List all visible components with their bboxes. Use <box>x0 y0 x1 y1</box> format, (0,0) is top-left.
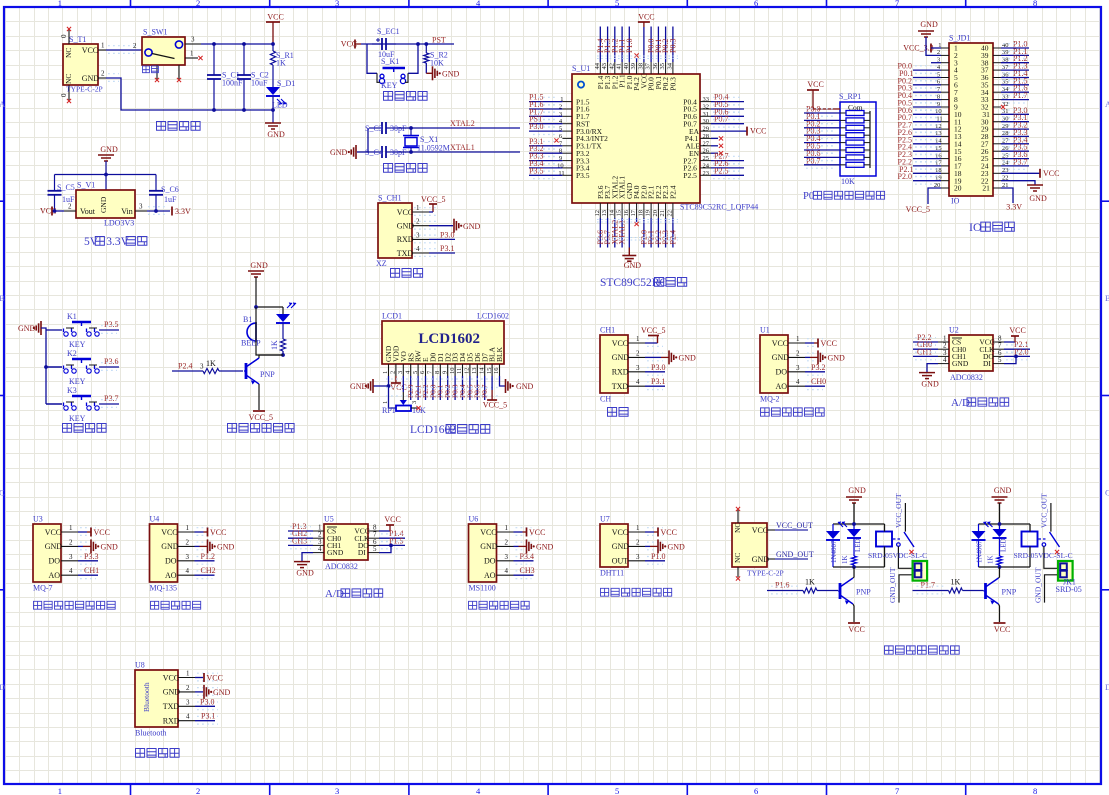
svg-text:IO: IO <box>969 220 982 234</box>
svg-text:P0: P0 <box>803 191 814 202</box>
svg-text:3: 3 <box>411 401 418 404</box>
svg-text:DO: DO <box>165 557 177 566</box>
svg-text:4: 4 <box>796 378 800 386</box>
svg-text:3: 3 <box>505 553 509 561</box>
svg-text:S_T1: S_T1 <box>69 35 86 44</box>
svg-text:3: 3 <box>397 371 404 374</box>
svg-text:U6: U6 <box>469 515 479 524</box>
svg-text:3: 3 <box>191 36 195 44</box>
svg-text:15: 15 <box>486 368 493 375</box>
svg-text:4: 4 <box>318 545 322 553</box>
svg-text:GND: GND <box>99 196 108 213</box>
svg-text:GND: GND <box>463 222 481 231</box>
svg-text:4: 4 <box>186 567 190 575</box>
svg-text:16: 16 <box>493 367 500 374</box>
svg-text:2: 2 <box>133 42 137 50</box>
svg-text:P1.0: P1.0 <box>651 552 665 561</box>
svg-text:10K: 10K <box>430 59 444 68</box>
svg-text:XTAL1: XTAL1 <box>618 220 627 245</box>
svg-text:3: 3 <box>139 203 143 211</box>
svg-text:S_C5: S_C5 <box>57 183 75 192</box>
svg-text:VCC_OUT: VCC_OUT <box>776 521 813 530</box>
svg-text:U7: U7 <box>600 515 610 524</box>
svg-text:P1.7: P1.7 <box>921 581 935 590</box>
svg-text:VCC: VCC <box>752 526 768 535</box>
svg-text:GND: GND <box>267 130 285 139</box>
svg-text:GND_OUT: GND_OUT <box>1034 567 1043 603</box>
svg-text:1: 1 <box>382 371 389 374</box>
svg-text:VCC_5: VCC_5 <box>421 195 445 204</box>
svg-text:GND: GND <box>516 382 534 391</box>
svg-text:CH1: CH1 <box>600 326 615 335</box>
svg-text:U3: U3 <box>33 515 43 524</box>
svg-text:SRD-05: SRD-05 <box>1056 585 1082 594</box>
svg-text:1: 1 <box>190 50 194 58</box>
svg-text:DHT11: DHT11 <box>600 569 624 578</box>
svg-text:VCC: VCC <box>807 80 823 89</box>
svg-text:SRD-05VDC-SL-C: SRD-05VDC-SL-C <box>868 551 927 560</box>
svg-text:2: 2 <box>69 538 73 546</box>
svg-text:S_JD1: S_JD1 <box>949 34 970 43</box>
svg-text:P3.1: P3.1 <box>201 712 215 721</box>
svg-text:3: 3 <box>796 364 800 372</box>
svg-text:12: 12 <box>464 368 471 375</box>
svg-text:VCC: VCC <box>848 625 864 634</box>
svg-text:5: 5 <box>412 371 419 374</box>
svg-text:STC89C52RC: STC89C52RC <box>600 277 667 289</box>
svg-text:3: 3 <box>636 364 640 372</box>
svg-text:16: 16 <box>623 209 630 216</box>
svg-text:15: 15 <box>616 210 623 217</box>
svg-text:1K: 1K <box>951 578 961 587</box>
svg-text:P1.6: P1.6 <box>775 581 789 590</box>
svg-text:KEY: KEY <box>69 414 86 423</box>
svg-text:VCC: VCC <box>994 625 1010 634</box>
svg-text:VCC: VCC <box>1009 326 1025 335</box>
svg-text:2: 2 <box>796 349 800 357</box>
svg-text:P3.4: P3.4 <box>520 552 534 561</box>
svg-text:P3.7: P3.7 <box>104 394 118 403</box>
svg-text:14: 14 <box>608 209 615 216</box>
svg-text:1K: 1K <box>841 555 849 564</box>
svg-text:AO: AO <box>776 382 788 391</box>
svg-text:3.3V: 3.3V <box>1006 203 1022 212</box>
svg-text:1: 1 <box>69 524 73 532</box>
svg-text:GND: GND <box>397 222 415 231</box>
svg-text:1: 1 <box>796 335 800 343</box>
svg-text:37: 37 <box>645 62 652 69</box>
svg-text:GND: GND <box>330 148 348 157</box>
svg-text:P0.7: P0.7 <box>714 115 728 124</box>
svg-text:12: 12 <box>594 210 601 217</box>
svg-text:38: 38 <box>637 63 644 70</box>
svg-text:PNP: PNP <box>1002 588 1017 597</box>
svg-text:IO: IO <box>951 197 960 206</box>
svg-text:S_RP1: S_RP1 <box>839 92 861 101</box>
svg-text:K2: K2 <box>67 349 77 358</box>
svg-text:18: 18 <box>637 210 644 217</box>
svg-text:10: 10 <box>449 368 456 375</box>
svg-text:A: A <box>0 99 6 109</box>
svg-text:VCC_5: VCC_5 <box>483 401 507 410</box>
svg-text:42: 42 <box>608 63 615 70</box>
svg-text:1: 1 <box>186 670 190 678</box>
svg-text:NC: NC <box>64 74 73 84</box>
svg-text:44: 44 <box>594 62 601 69</box>
svg-text:4: 4 <box>505 567 509 575</box>
svg-text:35: 35 <box>659 63 666 70</box>
svg-text:3: 3 <box>335 786 339 795</box>
svg-text:GND: GND <box>101 542 119 551</box>
svg-text:S_CH1: S_CH1 <box>378 194 402 203</box>
svg-text:VCC_OUT: VCC_OUT <box>1040 493 1049 528</box>
svg-text:NC: NC <box>733 523 742 533</box>
svg-text:P0.3: P0.3 <box>669 77 678 91</box>
svg-text:NC: NC <box>733 553 742 563</box>
svg-text:VCC: VCC <box>210 528 226 537</box>
svg-text:GND: GND <box>442 70 460 79</box>
svg-text:P3.2: P3.2 <box>811 363 825 372</box>
svg-text:KEY: KEY <box>69 377 86 386</box>
svg-text:20: 20 <box>652 210 659 217</box>
svg-text:NC: NC <box>64 48 73 58</box>
svg-text:CH1: CH1 <box>917 347 932 356</box>
svg-text:VCC: VCC <box>772 339 788 348</box>
svg-text:D: D <box>1105 682 1109 692</box>
svg-text:1: 1 <box>186 524 190 532</box>
svg-text:2: 2 <box>101 70 105 78</box>
svg-text:VCC: VCC <box>397 208 413 217</box>
svg-text:S_C6: S_C6 <box>161 185 179 194</box>
svg-text:40: 40 <box>623 63 630 70</box>
svg-text:9: 9 <box>441 371 448 374</box>
svg-text:GND: GND <box>217 542 235 551</box>
svg-text:S_EC1: S_EC1 <box>377 27 400 36</box>
svg-text:GND: GND <box>994 486 1012 495</box>
svg-text:4: 4 <box>69 567 73 575</box>
svg-text:CH0: CH0 <box>811 377 826 386</box>
svg-text:VCC: VCC <box>661 528 677 537</box>
svg-text:SRD-05VDC-SL-C: SRD-05VDC-SL-C <box>1014 551 1073 560</box>
svg-text:Vout: Vout <box>80 207 96 216</box>
svg-text:8: 8 <box>1033 0 1037 8</box>
svg-text:U5: U5 <box>324 515 334 524</box>
svg-text:3: 3 <box>186 553 190 561</box>
svg-text:21: 21 <box>659 210 666 217</box>
svg-text:GND: GND <box>480 542 498 551</box>
svg-text:2: 2 <box>505 538 509 546</box>
svg-text:U8: U8 <box>135 661 145 670</box>
svg-text:LED: LED <box>1000 538 1008 552</box>
svg-text:3: 3 <box>335 0 339 8</box>
svg-text:LED: LED <box>854 538 862 552</box>
svg-text:VCC: VCC <box>529 528 545 537</box>
svg-text:3: 3 <box>200 363 204 371</box>
svg-text:VCC_5: VCC_5 <box>641 326 665 335</box>
svg-text:2: 2 <box>196 786 200 795</box>
svg-text:1K: 1K <box>805 578 815 587</box>
svg-text:VCC_3.3: VCC_3.3 <box>903 44 933 53</box>
svg-text:GND: GND <box>327 548 344 557</box>
svg-text:PNP: PNP <box>856 588 871 597</box>
svg-text:41: 41 <box>616 63 623 70</box>
svg-text:B: B <box>1105 293 1109 303</box>
svg-text:VCC: VCC <box>612 528 628 537</box>
svg-text:CH3: CH3 <box>292 536 307 545</box>
svg-text:1: 1 <box>636 335 640 343</box>
svg-text:PNP: PNP <box>260 370 275 379</box>
svg-text:VCC_5: VCC_5 <box>249 413 273 422</box>
svg-text:RP1: RP1 <box>382 406 396 415</box>
svg-text:TXD: TXD <box>163 702 180 711</box>
svg-text:GND: GND <box>828 353 846 362</box>
svg-text:MQ-2: MQ-2 <box>760 395 780 404</box>
svg-text:DI: DI <box>358 548 366 557</box>
svg-text:4: 4 <box>186 713 190 721</box>
svg-text:20: 20 <box>954 184 962 193</box>
svg-text:8: 8 <box>434 371 441 374</box>
svg-text:34: 34 <box>666 62 673 69</box>
svg-text:GND: GND <box>920 20 938 29</box>
svg-text:GND: GND <box>350 382 368 391</box>
svg-text:KEY: KEY <box>381 81 398 90</box>
svg-text:VCC_5: VCC_5 <box>906 205 930 214</box>
svg-text:1N4007: 1N4007 <box>976 540 984 563</box>
svg-text:DI: DI <box>983 359 991 368</box>
svg-text:CH3: CH3 <box>520 566 535 575</box>
svg-text:P2.5: P2.5 <box>683 171 697 180</box>
svg-text:VCC: VCC <box>207 673 223 682</box>
svg-text:CH2: CH2 <box>201 566 216 575</box>
svg-text:2: 2 <box>390 371 397 374</box>
svg-text:AO: AO <box>49 571 61 580</box>
svg-text:RXD: RXD <box>397 235 414 244</box>
svg-text:GND: GND <box>250 261 268 270</box>
svg-text:GND: GND <box>612 542 630 551</box>
svg-text:DO: DO <box>484 557 496 566</box>
svg-text:2: 2 <box>68 203 72 211</box>
svg-text:GND_OUT: GND_OUT <box>776 550 814 559</box>
svg-text:VCC: VCC <box>480 528 496 537</box>
svg-text:1uF: 1uF <box>164 195 177 204</box>
svg-text:11: 11 <box>456 368 463 374</box>
svg-text:S_V1: S_V1 <box>77 181 95 190</box>
svg-text:GND: GND <box>163 688 181 697</box>
svg-text:1K: 1K <box>987 555 995 564</box>
svg-text:Bluetooth: Bluetooth <box>135 729 167 738</box>
svg-text:TYPE-C-2P: TYPE-C-2P <box>66 85 103 94</box>
svg-text:ADC0832: ADC0832 <box>950 373 983 382</box>
svg-text:S_U1: S_U1 <box>572 64 590 73</box>
svg-text:3: 3 <box>69 553 73 561</box>
svg-text:D: D <box>0 682 5 692</box>
svg-text:10K: 10K <box>841 177 855 186</box>
svg-text:VCC: VCC <box>45 528 61 537</box>
svg-text:PST: PST <box>432 36 446 45</box>
svg-text:A: A <box>1105 99 1109 109</box>
svg-text:13: 13 <box>471 368 478 375</box>
svg-text:P2.0: P2.0 <box>898 172 912 181</box>
svg-text:VCC: VCC <box>82 46 98 55</box>
svg-text:P3.0: P3.0 <box>529 122 543 131</box>
svg-text:1: 1 <box>505 524 509 532</box>
svg-text:1K: 1K <box>270 340 279 350</box>
svg-text:LCD1: LCD1 <box>382 312 402 321</box>
svg-text:8: 8 <box>1033 786 1037 795</box>
svg-text:GND: GND <box>752 555 770 564</box>
svg-text:4: 4 <box>943 356 947 364</box>
svg-text:P3.1: P3.1 <box>440 244 454 253</box>
svg-text:1K: 1K <box>276 59 286 68</box>
svg-text:VCC: VCC <box>384 515 400 524</box>
svg-text:DO: DO <box>776 368 788 377</box>
svg-text:3.3V: 3.3V <box>175 207 191 216</box>
svg-text:GND: GND <box>952 359 969 368</box>
svg-text:5V: 5V <box>84 236 99 248</box>
svg-text:5: 5 <box>373 545 377 553</box>
svg-text:B1: B1 <box>243 315 252 324</box>
svg-text:GND: GND <box>668 542 686 551</box>
svg-text:VCC: VCC <box>163 673 179 682</box>
svg-text:P2.4: P2.4 <box>669 185 678 199</box>
svg-text:C: C <box>0 488 5 498</box>
svg-text:P3.5: P3.5 <box>576 171 590 180</box>
svg-text:19: 19 <box>645 210 652 217</box>
svg-text:B: B <box>0 293 5 303</box>
svg-text:0: 0 <box>60 93 68 97</box>
svg-text:CH: CH <box>600 395 611 404</box>
svg-text:K1: K1 <box>67 312 77 321</box>
svg-text:VCC: VCC <box>638 13 654 22</box>
svg-text:VCC: VCC <box>821 339 837 348</box>
svg-text:AO: AO <box>484 571 496 580</box>
svg-text:36: 36 <box>652 62 659 69</box>
svg-text:P2.5: P2.5 <box>714 166 728 175</box>
svg-text:LCD1602: LCD1602 <box>477 312 509 321</box>
svg-text:LED: LED <box>272 101 288 110</box>
svg-text:43: 43 <box>601 63 608 70</box>
svg-text:XTAL1: XTAL1 <box>450 143 475 152</box>
svg-text:RXD: RXD <box>163 717 180 726</box>
svg-text:P1.2: P1.2 <box>201 552 215 561</box>
svg-text:VCC: VCC <box>267 13 283 22</box>
svg-text:DO: DO <box>49 557 61 566</box>
svg-text:GND_OUT: GND_OUT <box>888 567 897 603</box>
svg-text:P3.0: P3.0 <box>440 231 454 240</box>
svg-text:S_SW1: S_SW1 <box>143 28 167 37</box>
svg-text:U4: U4 <box>150 515 160 524</box>
svg-text:7: 7 <box>895 0 899 8</box>
svg-text:1: 1 <box>101 42 105 50</box>
svg-text:GND: GND <box>679 353 697 362</box>
svg-text:BEEP: BEEP <box>241 339 261 348</box>
svg-text:U2: U2 <box>949 326 959 335</box>
svg-text:K3: K3 <box>67 386 77 395</box>
svg-text:P2.4: P2.4 <box>178 362 192 371</box>
svg-text:11.0592M: 11.0592M <box>417 144 450 153</box>
svg-text:CH1: CH1 <box>84 566 99 575</box>
svg-text:10uF: 10uF <box>251 79 268 88</box>
svg-text:P3.1: P3.1 <box>651 377 665 386</box>
svg-text:P1.0: P1.0 <box>625 39 634 53</box>
svg-text:GND: GND <box>921 380 939 389</box>
svg-text:2: 2 <box>186 684 190 692</box>
svg-text:2: 2 <box>186 538 190 546</box>
svg-text:TXD: TXD <box>397 249 414 258</box>
svg-text:21: 21 <box>982 184 990 193</box>
svg-text:P0.3: P0.3 <box>669 39 678 53</box>
svg-text:P3.3: P3.3 <box>84 552 98 561</box>
svg-text:ADC0832: ADC0832 <box>325 562 358 571</box>
svg-text:13: 13 <box>601 210 608 217</box>
svg-text:AO: AO <box>165 571 177 580</box>
svg-text:GND: GND <box>45 542 63 551</box>
svg-text:GND: GND <box>296 569 314 578</box>
svg-text:VCC: VCC <box>1043 169 1059 178</box>
svg-text:P3.7: P3.7 <box>1013 157 1027 166</box>
svg-text:22: 22 <box>666 210 673 217</box>
svg-text:17: 17 <box>630 209 637 216</box>
svg-text:GND: GND <box>612 353 630 362</box>
svg-text:P1.7: P1.7 <box>1013 91 1027 100</box>
svg-text:5: 5 <box>615 786 619 795</box>
svg-text:VCC: VCC <box>612 339 628 348</box>
svg-text:P0.7: P0.7 <box>806 156 820 165</box>
svg-text:RXD: RXD <box>612 368 629 377</box>
svg-text:GND: GND <box>848 486 866 495</box>
svg-text:VCC: VCC <box>94 528 110 537</box>
svg-text:MQ-135: MQ-135 <box>150 584 178 593</box>
svg-text:0: 0 <box>60 34 68 38</box>
svg-text:14: 14 <box>478 367 485 374</box>
svg-text:GND: GND <box>772 353 790 362</box>
svg-text:BLK: BLK <box>495 346 504 362</box>
svg-text:VCC: VCC <box>161 528 177 537</box>
svg-text:KEY: KEY <box>69 340 86 349</box>
svg-text:2: 2 <box>196 0 200 8</box>
svg-text:MQ-7: MQ-7 <box>33 584 53 593</box>
svg-text:6: 6 <box>754 0 758 8</box>
svg-text:P3.5: P3.5 <box>104 320 118 329</box>
svg-text:LDO3V3: LDO3V3 <box>104 219 134 228</box>
svg-text:1N4007: 1N4007 <box>830 540 838 563</box>
svg-text:VCC: VCC <box>750 127 766 136</box>
svg-text:GND: GND <box>624 261 642 270</box>
svg-text:XTAL2: XTAL2 <box>450 119 475 128</box>
svg-text:P3.5: P3.5 <box>529 166 543 175</box>
svg-text:MS1100: MS1100 <box>469 584 496 593</box>
svg-text:VCC_OUT: VCC_OUT <box>894 493 903 528</box>
svg-text:P3.6: P3.6 <box>104 357 118 366</box>
svg-text:Bluetooth: Bluetooth <box>142 682 151 712</box>
svg-text:1: 1 <box>58 0 62 8</box>
svg-text:GND: GND <box>1029 194 1047 203</box>
svg-text:TXD: TXD <box>612 382 629 391</box>
svg-text:S_C3: S_C3 <box>365 124 383 133</box>
svg-text:1: 1 <box>58 786 62 795</box>
svg-text:GND: GND <box>213 688 231 697</box>
svg-text:39: 39 <box>630 63 637 70</box>
svg-text:1K: 1K <box>206 359 216 368</box>
svg-text:P3.0: P3.0 <box>200 697 214 706</box>
svg-text:XZ: XZ <box>376 259 387 268</box>
svg-text:STC89C52RC_LQFP44: STC89C52RC_LQFP44 <box>680 203 758 212</box>
svg-text:1: 1 <box>382 401 389 404</box>
svg-text:S_K1: S_K1 <box>381 57 399 66</box>
svg-text:5: 5 <box>615 0 619 8</box>
svg-text:3: 3 <box>186 698 190 706</box>
svg-text:LCD1602: LCD1602 <box>418 331 480 347</box>
